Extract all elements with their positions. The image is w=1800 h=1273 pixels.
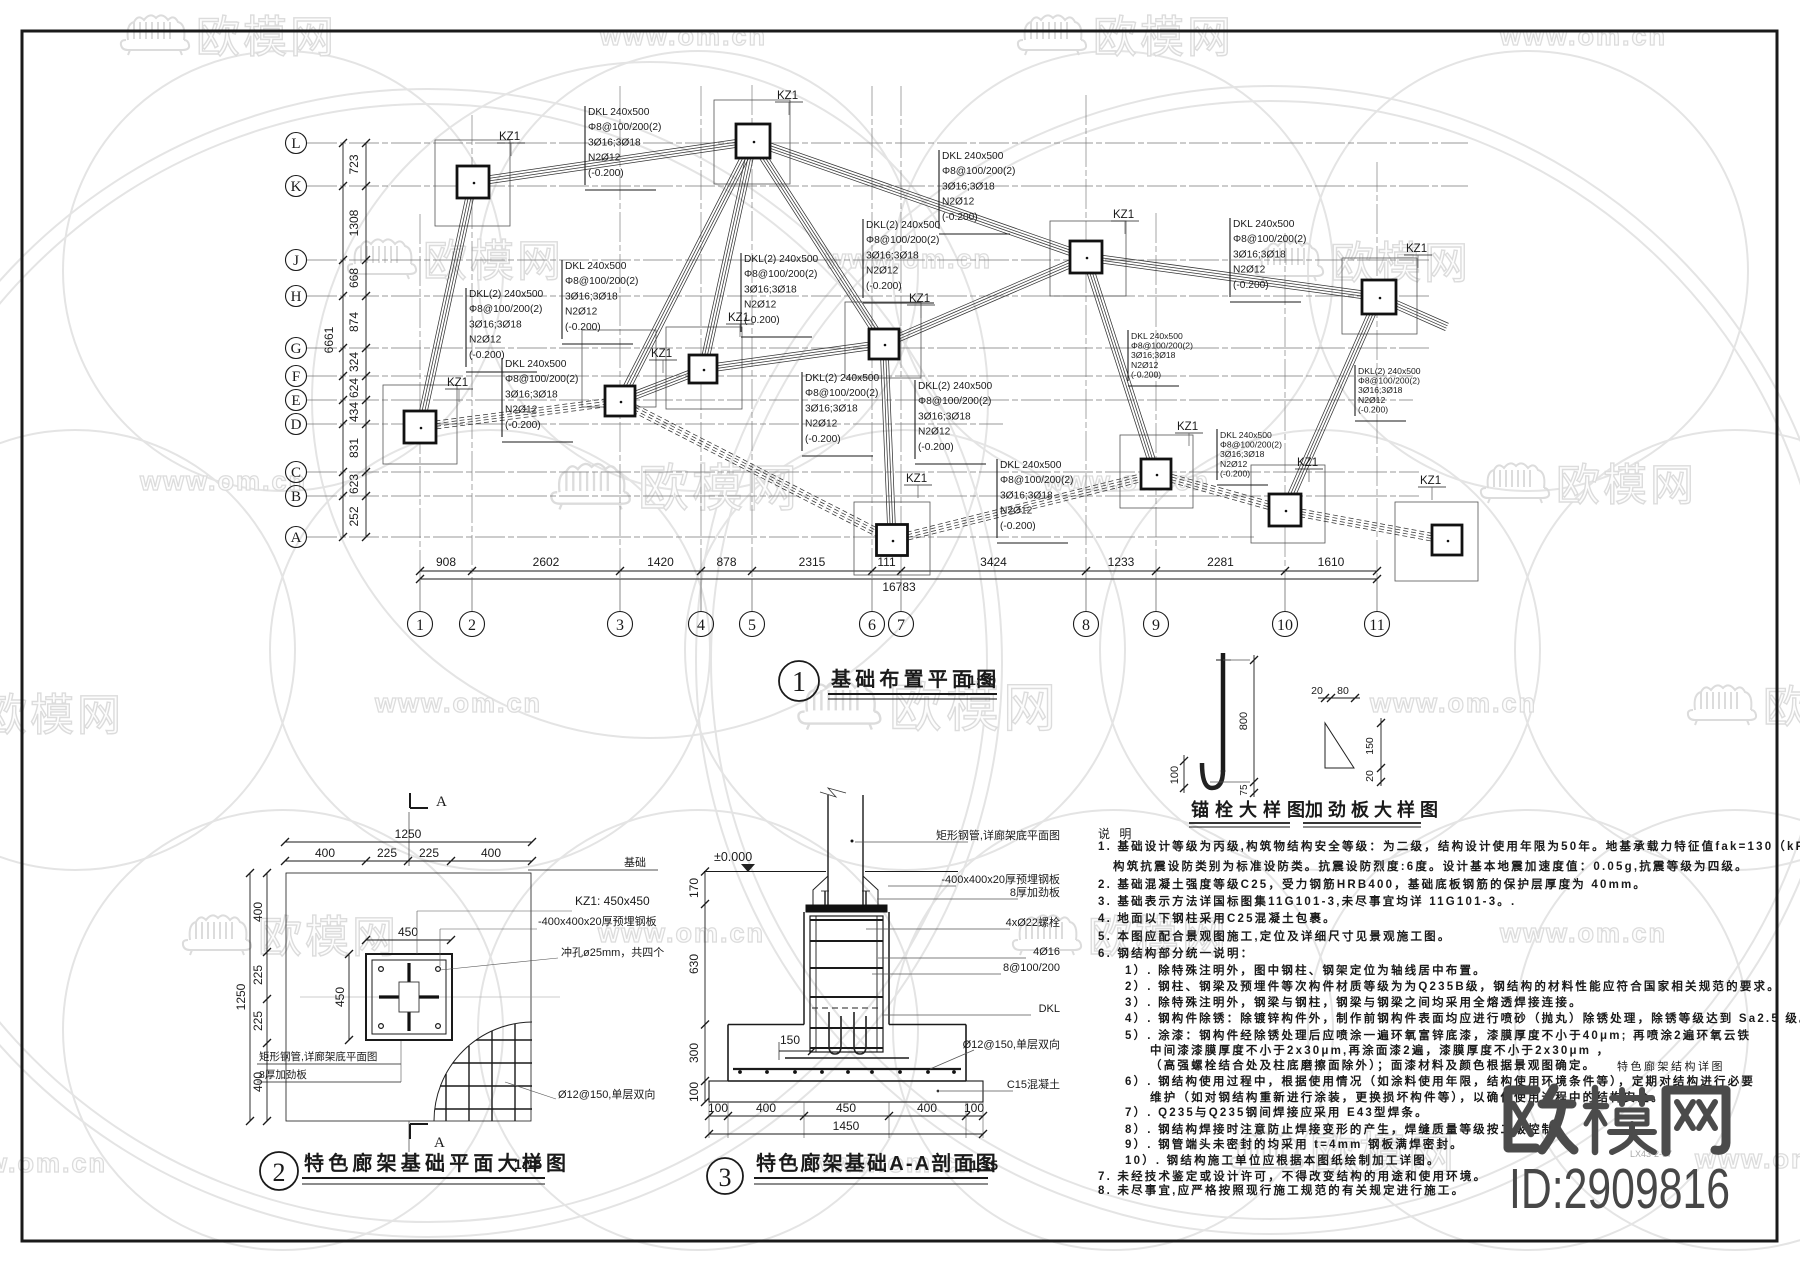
svg-text:9）. 钢管端头未密封的均采用 t=4mm 钢板满焊密封。: 9）. 钢管端头未密封的均采用 t=4mm 钢板满焊密封。 xyxy=(1125,1137,1464,1151)
svg-text:DKL: DKL xyxy=(1039,1003,1060,1015)
svg-text:1610: 1610 xyxy=(1318,555,1345,569)
svg-text:DKL 240x500: DKL 240x500 xyxy=(1000,460,1062,471)
svg-text:(-0.200): (-0.200) xyxy=(505,420,541,431)
svg-text:225: 225 xyxy=(251,1011,265,1031)
svg-text:DKL 240x500: DKL 240x500 xyxy=(588,107,650,118)
svg-text:5）. 涂漆：钢构件经除锈处理后应喷涂一遍环氧富锌底漆，漆膜: 5）. 涂漆：钢构件经除锈处理后应喷涂一遍环氧富锌底漆，漆膜厚度不小于40μm;… xyxy=(1125,1028,1751,1042)
svg-text:冲孔ø25mm，共四个: 冲孔ø25mm，共四个 xyxy=(561,945,664,959)
svg-text:3424: 3424 xyxy=(980,555,1007,569)
svg-text:特色廊架基础A-A剖面图: 特色廊架基础A-A剖面图 xyxy=(756,1151,998,1175)
svg-text:A: A xyxy=(436,794,447,810)
svg-text:(-0.200): (-0.200) xyxy=(565,322,601,333)
svg-text:Ø12@150,单层双向: Ø12@150,单层双向 xyxy=(558,1087,655,1101)
svg-text:3Ø16;3Ø18: 3Ø16;3Ø18 xyxy=(918,411,971,422)
svg-text:www.om.cn: www.om.cn xyxy=(374,688,542,718)
svg-text:N2Ø12: N2Ø12 xyxy=(744,300,777,311)
svg-text:225: 225 xyxy=(377,846,397,860)
svg-text:Ø12@150,单层双向: Ø12@150,单层双向 xyxy=(963,1037,1060,1051)
svg-text:2. 基础混凝土强度等级C25，受力钢筋HRB400，基础底: 2. 基础混凝土强度等级C25，受力钢筋HRB400，基础底板钢筋的保护层厚度为… xyxy=(1098,877,1647,891)
svg-text:4xØ22螺栓: 4xØ22螺栓 xyxy=(1006,915,1060,929)
svg-text:5: 5 xyxy=(748,617,756,634)
svg-text:欧模网: 欧模网 xyxy=(1556,461,1697,510)
svg-text:KZ1: KZ1 xyxy=(499,131,520,143)
svg-text:DKL 240x500: DKL 240x500 xyxy=(505,359,567,370)
svg-text:5. 本图应配合景观图施工,定位及详细尺寸见景观施工图。: 5. 本图应配合景观图施工,定位及详细尺寸见景观施工图。 xyxy=(1098,929,1452,943)
svg-text:624: 624 xyxy=(347,378,361,398)
svg-text:4）. 钢构件除锈：除镀锌构件外，制作前钢构件表面均应进行喷: 4）. 钢构件除锈：除镀锌构件外，制作前钢构件表面均应进行喷砂（抛丸）除锈处理，… xyxy=(1125,1011,1800,1025)
svg-text:Φ8@100/200(2): Φ8@100/200(2) xyxy=(866,235,939,246)
svg-text:说 明: 说 明 xyxy=(1098,826,1134,841)
svg-text:中间漆漆膜厚度不小于2x30μm,再涂面漆2遍，漆膜厚度不小: 中间漆漆膜厚度不小于2x30μm,再涂面漆2遍，漆膜厚度不小于2x30μm ， xyxy=(1150,1043,1610,1057)
svg-text:9: 9 xyxy=(1152,617,1160,634)
svg-text:8厚加劲板: 8厚加劲板 xyxy=(259,1068,307,1081)
svg-text:欧模网: 欧模网 xyxy=(638,460,800,517)
svg-text:DKL(2) 240x500: DKL(2) 240x500 xyxy=(469,289,544,300)
svg-text:874: 874 xyxy=(347,312,361,332)
svg-text:(-0.200): (-0.200) xyxy=(866,281,902,292)
svg-text:Φ8@100/200(2): Φ8@100/200(2) xyxy=(588,122,661,133)
svg-text:B: B xyxy=(291,489,301,505)
svg-text:450: 450 xyxy=(836,1101,856,1115)
svg-text:3Ø16;3Ø18: 3Ø16;3Ø18 xyxy=(1220,449,1265,459)
svg-text:A: A xyxy=(434,1135,445,1151)
svg-text:D: D xyxy=(291,417,302,433)
svg-text:3Ø16;3Ø18: 3Ø16;3Ø18 xyxy=(505,389,558,400)
svg-text:Φ8@100/200(2): Φ8@100/200(2) xyxy=(744,269,817,280)
svg-text:16783: 16783 xyxy=(882,580,916,594)
svg-text:908: 908 xyxy=(436,555,456,569)
svg-text:加劲板大样图: 加劲板大样图 xyxy=(1304,799,1443,820)
svg-text:L: L xyxy=(291,136,300,152)
svg-text:(-0.200): (-0.200) xyxy=(1131,369,1161,379)
svg-text:3Ø16;3Ø18: 3Ø16;3Ø18 xyxy=(942,181,995,192)
svg-text:1250: 1250 xyxy=(395,827,422,841)
svg-text:DKL 240x500: DKL 240x500 xyxy=(942,151,1004,162)
svg-text:225: 225 xyxy=(419,846,439,860)
svg-text:8）. 钢结构焊接时注意防止焊接变形的产生，焊缝质量等级按二: 8）. 钢结构焊接时注意防止焊接变形的产生，焊缝质量等级按二级控制。 xyxy=(1125,1122,1569,1136)
svg-text:400: 400 xyxy=(917,1101,937,1115)
svg-text:www.om.cn: www.om.cn xyxy=(1499,918,1667,948)
svg-text:400: 400 xyxy=(315,846,335,860)
svg-text:-400x400x20厚预埋钢板: -400x400x20厚预埋钢板 xyxy=(538,914,657,928)
svg-text:A: A xyxy=(291,530,302,546)
svg-text:800: 800 xyxy=(1238,712,1250,730)
svg-text:N2Ø12: N2Ø12 xyxy=(565,307,598,318)
svg-text:J: J xyxy=(293,253,299,269)
svg-text:基础: 基础 xyxy=(624,856,646,869)
svg-text:F: F xyxy=(292,369,300,385)
svg-text:3: 3 xyxy=(719,1163,732,1192)
svg-text:831: 831 xyxy=(347,438,361,458)
svg-text:E: E xyxy=(291,393,300,409)
svg-text:K: K xyxy=(291,179,302,195)
svg-text:1: 1 xyxy=(792,667,806,698)
svg-text:2602: 2602 xyxy=(533,555,560,569)
svg-text:N2Ø12: N2Ø12 xyxy=(588,153,621,164)
svg-text:Φ8@100/200(2): Φ8@100/200(2) xyxy=(505,374,578,385)
svg-text:(-0.200): (-0.200) xyxy=(744,315,780,326)
svg-text:DKL(2) 240x500: DKL(2) 240x500 xyxy=(805,373,880,384)
svg-text:(-0.200): (-0.200) xyxy=(805,434,841,445)
svg-text:4Ø16: 4Ø16 xyxy=(1033,946,1060,958)
svg-text:20: 20 xyxy=(1311,685,1323,697)
svg-text:630: 630 xyxy=(687,954,701,974)
svg-text:KZ1: 450x450: KZ1: 450x450 xyxy=(575,894,650,908)
svg-text:构筑抗震设防类别为标准设防类。抗震设防烈度:6度。设计基本地: 构筑抗震设防类别为标准设防类。抗震设防烈度:6度。设计基本地震加速度值：0.05… xyxy=(1113,859,1749,873)
svg-text:欧模网: 欧模网 xyxy=(1093,13,1234,62)
svg-text:Φ8@100/200(2): Φ8@100/200(2) xyxy=(1233,234,1306,245)
svg-text:723: 723 xyxy=(347,154,361,174)
svg-text:-400x400x20厚预埋钢板: -400x400x20厚预埋钢板 xyxy=(941,872,1060,886)
svg-text:DKL 240x500: DKL 240x500 xyxy=(1220,430,1272,440)
svg-text:KZ1: KZ1 xyxy=(1177,421,1198,433)
svg-text:N2Ø12: N2Ø12 xyxy=(505,405,538,416)
svg-text:225: 225 xyxy=(251,965,265,985)
svg-text:Φ8@100/200(2): Φ8@100/200(2) xyxy=(469,304,542,315)
svg-text:400: 400 xyxy=(756,1101,776,1115)
svg-text:G: G xyxy=(291,341,302,357)
svg-text:(-0.200): (-0.200) xyxy=(1233,280,1269,291)
svg-text:DKL(2) 240x500: DKL(2) 240x500 xyxy=(866,220,941,231)
svg-text:H: H xyxy=(291,289,302,305)
svg-text:3Ø16;3Ø18: 3Ø16;3Ø18 xyxy=(469,319,522,330)
svg-text:KZ1: KZ1 xyxy=(651,348,672,360)
svg-text:www.om.cn: www.om.cn xyxy=(599,21,767,51)
svg-text:www.om.cn: www.om.cn xyxy=(139,466,307,496)
svg-text:KZ1: KZ1 xyxy=(1297,457,1318,469)
svg-text:Φ8@100/200(2): Φ8@100/200(2) xyxy=(565,276,638,287)
svg-text:668: 668 xyxy=(347,268,361,288)
svg-text:DKL(2) 240x500: DKL(2) 240x500 xyxy=(918,381,993,392)
svg-text:3Ø16;3Ø18: 3Ø16;3Ø18 xyxy=(744,284,797,295)
svg-text:(-0.200): (-0.200) xyxy=(942,212,978,223)
svg-text:Φ8@100/200(2): Φ8@100/200(2) xyxy=(805,388,878,399)
svg-text:170: 170 xyxy=(687,878,701,898)
svg-text:Φ8@100/200(2): Φ8@100/200(2) xyxy=(918,396,991,407)
svg-text:N2Ø12: N2Ø12 xyxy=(1233,265,1266,276)
svg-text:100: 100 xyxy=(687,1082,701,1102)
svg-text:100: 100 xyxy=(964,1101,984,1115)
svg-text:100: 100 xyxy=(1169,766,1181,784)
svg-text:1420: 1420 xyxy=(647,555,674,569)
svg-text:7: 7 xyxy=(897,617,905,634)
svg-text:80: 80 xyxy=(1337,685,1349,697)
svg-text:欧模网: 欧模网 xyxy=(423,237,564,286)
svg-text:1450: 1450 xyxy=(833,1119,860,1133)
svg-text:欧模网: 欧模网 xyxy=(196,13,337,62)
svg-text:ID:2909816: ID:2909816 xyxy=(1509,1156,1730,1220)
svg-text:1）. 除特殊注明外，图中钢柱、钢架定位为轴线居中布置。: 1）. 除特殊注明外，图中钢柱、钢架定位为轴线居中布置。 xyxy=(1125,963,1487,977)
svg-text:450: 450 xyxy=(398,925,418,939)
svg-text:(-0.200): (-0.200) xyxy=(1000,521,1036,532)
svg-text:450: 450 xyxy=(333,987,347,1007)
svg-text:2315: 2315 xyxy=(799,555,826,569)
svg-text:(-0.200): (-0.200) xyxy=(1358,404,1388,414)
svg-text:KZ1: KZ1 xyxy=(1420,475,1441,487)
svg-text:11: 11 xyxy=(1369,617,1384,634)
svg-text:8@100/200: 8@100/200 xyxy=(1003,962,1060,974)
svg-text:20: 20 xyxy=(1364,770,1376,782)
svg-text:维护（如对钢结构重新进行涂装，更换损坏构件等），以确保使用过: 维护（如对钢结构重新进行涂装，更换损坏构件等），以确保使用过程中的结构安全。 xyxy=(1150,1090,1665,1104)
svg-text:Φ8@100/200(2): Φ8@100/200(2) xyxy=(1220,440,1282,450)
svg-text:434: 434 xyxy=(347,402,361,422)
svg-text:6661: 6661 xyxy=(322,326,336,353)
svg-text:Φ8@100/200(2): Φ8@100/200(2) xyxy=(1131,341,1193,351)
svg-text:10）. 钢结构施工单位应根据本图纸绘制加工详图。: 10）. 钢结构施工单位应根据本图纸绘制加工详图。 xyxy=(1125,1153,1441,1167)
svg-text:100: 100 xyxy=(708,1101,728,1115)
svg-text:400: 400 xyxy=(481,846,501,860)
svg-text:3Ø16;3Ø18: 3Ø16;3Ø18 xyxy=(1233,249,1286,260)
svg-text:Φ8@100/200(2): Φ8@100/200(2) xyxy=(1358,376,1420,386)
svg-text:6: 6 xyxy=(868,617,876,634)
svg-text:N2Ø12: N2Ø12 xyxy=(805,419,838,430)
svg-text:KZ1: KZ1 xyxy=(1113,209,1134,221)
svg-text:3Ø16;3Ø18: 3Ø16;3Ø18 xyxy=(866,250,919,261)
svg-text:N2Ø12: N2Ø12 xyxy=(1000,506,1033,517)
svg-text:3. 基础表示方法详国标图集11G101-3,未尽事宜均详: 3. 基础表示方法详国标图集11G101-3,未尽事宜均详 11G101-3。. xyxy=(1098,894,1516,908)
svg-text:N2Ø12: N2Ø12 xyxy=(469,335,502,346)
svg-text:C: C xyxy=(291,465,301,481)
svg-text:2: 2 xyxy=(273,1158,286,1187)
svg-text:N2Ø12: N2Ø12 xyxy=(1220,459,1247,469)
svg-text:www.om.cn: www.om.cn xyxy=(1499,21,1667,51)
svg-text:3Ø16;3Ø18: 3Ø16;3Ø18 xyxy=(588,137,641,148)
svg-text:75: 75 xyxy=(1239,784,1250,796)
svg-text:±0.000: ±0.000 xyxy=(714,850,752,864)
svg-text:N2Ø12: N2Ø12 xyxy=(1358,395,1385,405)
svg-text:www.om.cn: www.om.cn xyxy=(0,1148,107,1178)
svg-text:欧模网: 欧模网 xyxy=(1330,239,1471,288)
svg-text:N2Ø12: N2Ø12 xyxy=(866,266,899,277)
svg-text:(-0.200): (-0.200) xyxy=(1220,468,1250,478)
svg-text:7）. Q235与Q235钢间焊接应采用 E43型焊条。: 7）. Q235与Q235钢间焊接应采用 E43型焊条。 xyxy=(1125,1105,1429,1119)
svg-text:DKL 240x500: DKL 240x500 xyxy=(1233,219,1295,230)
svg-text:(-0.200): (-0.200) xyxy=(469,350,505,361)
svg-text:252: 252 xyxy=(347,506,361,526)
svg-text:150: 150 xyxy=(780,1033,800,1047)
svg-text:KZ1: KZ1 xyxy=(447,377,468,389)
svg-text:DKL 240x500: DKL 240x500 xyxy=(565,261,627,272)
svg-text:8. 未尽事宜,应严格按照现行施工规范的有关规定进行施工。: 8. 未尽事宜,应严格按照现行施工规范的有关规定进行施工。 xyxy=(1098,1183,1465,1197)
svg-text:3: 3 xyxy=(616,617,624,634)
svg-text:150: 150 xyxy=(1364,737,1376,755)
svg-text:3Ø16;3Ø18: 3Ø16;3Ø18 xyxy=(805,403,858,414)
svg-text:(-0.200): (-0.200) xyxy=(918,442,954,453)
svg-text:6）. 钢结构使用过程中，根据使用情况（如涂料使用年限，结构: 6）. 钢结构使用过程中，根据使用情况（如涂料使用年限，结构使用环境条件等），定… xyxy=(1125,1074,1755,1088)
svg-text:矩形钢管,详廊架底平面图: 矩形钢管,详廊架底平面图 xyxy=(936,828,1060,842)
svg-text:欧模网: 欧模网 xyxy=(1763,683,1800,732)
svg-text:3）. 除特殊注明外，钢梁与钢柱，钢梁与钢梁之间均采用全熔透: 3）. 除特殊注明外，钢梁与钢柱，钢梁与钢梁之间均采用全熔透焊接连接。 xyxy=(1125,995,1583,1009)
svg-text:特色廊架结构详图: 特色廊架结构详图 xyxy=(1617,1059,1725,1073)
svg-text:1250: 1250 xyxy=(234,983,248,1010)
svg-text:3Ø16;3Ø18: 3Ø16;3Ø18 xyxy=(1000,490,1053,501)
svg-text:1. 基础设计等级为丙级,构筑物结构安全等级：为二级，结构设: 1. 基础设计等级为丙级,构筑物结构安全等级：为二级，结构设计使用年限为50年。… xyxy=(1098,839,1800,853)
svg-text:KZ1: KZ1 xyxy=(906,473,927,485)
svg-text:KZ1: KZ1 xyxy=(1406,243,1427,255)
svg-text:8: 8 xyxy=(1082,617,1090,634)
svg-text:欧模网: 欧模网 xyxy=(0,691,124,740)
svg-text:N2Ø12: N2Ø12 xyxy=(1131,360,1158,370)
svg-text:111: 111 xyxy=(877,555,896,569)
svg-text:KZ1: KZ1 xyxy=(777,90,798,102)
svg-text:1: 1 xyxy=(416,617,424,634)
svg-text:878: 878 xyxy=(716,555,736,569)
svg-text:400: 400 xyxy=(251,902,265,922)
svg-text:1308: 1308 xyxy=(347,209,361,236)
svg-text:(-0.200): (-0.200) xyxy=(588,168,624,179)
svg-text:623: 623 xyxy=(347,474,361,494)
svg-text:3Ø16;3Ø18: 3Ø16;3Ø18 xyxy=(1358,385,1403,395)
svg-text:4: 4 xyxy=(697,617,705,634)
svg-text:DKL 240x500: DKL 240x500 xyxy=(1131,331,1183,341)
svg-text:www.om.cn: www.om.cn xyxy=(1369,688,1537,718)
svg-text:2: 2 xyxy=(468,617,476,634)
svg-text:Φ8@100/200(2): Φ8@100/200(2) xyxy=(1000,475,1073,486)
svg-text:4. 地面以下钢柱采用C25混凝土包裹。: 4. 地面以下钢柱采用C25混凝土包裹。 xyxy=(1098,911,1337,925)
svg-text:（高强螺栓结合处及柱底磨擦面除外）；面漆材料及颜色根据景观图: （高强螺栓结合处及柱底磨擦面除外）；面漆材料及颜色根据景观图确定。 xyxy=(1150,1058,1596,1072)
svg-text:N2Ø12: N2Ø12 xyxy=(942,197,975,208)
svg-text:锚栓大样图: 锚栓大样图 xyxy=(1191,799,1311,820)
svg-text:2281: 2281 xyxy=(1207,555,1234,569)
svg-text:DKL(2) 240x500: DKL(2) 240x500 xyxy=(744,254,819,265)
svg-text:6. 钢结构部分统一说明：: 6. 钢结构部分统一说明： xyxy=(1098,946,1254,960)
svg-text:324: 324 xyxy=(347,352,361,372)
svg-text:1:50: 1:50 xyxy=(968,672,996,688)
svg-text:3Ø16;3Ø18: 3Ø16;3Ø18 xyxy=(1131,350,1176,360)
svg-text:C15混凝土: C15混凝土 xyxy=(1007,1077,1060,1091)
svg-text:N2Ø12: N2Ø12 xyxy=(918,427,951,438)
svg-text:10: 10 xyxy=(1277,617,1293,634)
svg-text:1233: 1233 xyxy=(1108,555,1135,569)
svg-text:8厚加劲板: 8厚加劲板 xyxy=(1010,885,1060,899)
svg-text:1:15: 1:15 xyxy=(514,1156,542,1172)
svg-text:7. 未经技术鉴定或设计许可，不得改变结构的用途和使用环境。: 7. 未经技术鉴定或设计许可，不得改变结构的用途和使用环境。 xyxy=(1098,1169,1487,1183)
svg-text:3Ø16;3Ø18: 3Ø16;3Ø18 xyxy=(565,291,618,302)
svg-text:DKL(2) 240x500: DKL(2) 240x500 xyxy=(1358,366,1421,376)
svg-text:Φ8@100/200(2): Φ8@100/200(2) xyxy=(942,166,1015,177)
svg-text:1:15: 1:15 xyxy=(970,1157,998,1173)
svg-text:2）. 钢柱、钢梁及预埋件等次构件材质等级为为Q235B级，: 2）. 钢柱、钢梁及预埋件等次构件材质等级为为Q235B级，钢结构的材料性能应符… xyxy=(1125,979,1781,993)
svg-text:矩形钢管,详廊架底平面图: 矩形钢管,详廊架底平面图 xyxy=(259,1050,377,1063)
svg-text:300: 300 xyxy=(687,1043,701,1063)
